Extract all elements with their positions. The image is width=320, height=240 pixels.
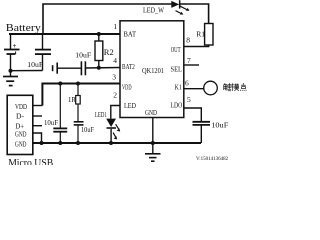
svg-text:10uF: 10uF [211, 120, 228, 129]
wire R1 to pin8 [184, 45, 209, 47]
wire C3 to pin4 BAT2 [85, 67, 120, 70]
wire D+ stub [33, 125, 42, 127]
svg-text:Battery: Battery [6, 23, 42, 34]
wire battery top rail [9, 33, 120, 35]
svg-text:LED_W: LED_W [143, 7, 164, 15]
svg-text:R1: R1 [196, 30, 205, 39]
svg-text:10uF: 10uF [75, 51, 91, 60]
svg-text:SEL: SEL [171, 65, 183, 74]
LED W emission arrows [176, 6, 190, 15]
ground chip [145, 153, 161, 155]
node 1R top [76, 82, 80, 86]
resistor R1 [205, 24, 213, 46]
node GND1 [40, 141, 44, 145]
capacitor C6 10uF [193, 121, 211, 123]
svg-text:BAT2: BAT2 [122, 62, 135, 71]
LED W [171, 0, 180, 8]
node battery bottom [9, 69, 13, 73]
svg-text:BAT: BAT [124, 30, 137, 39]
svg-text:V:15014136482: V:15014136482 [196, 157, 229, 162]
svg-text:+: + [13, 42, 17, 50]
node chip GND [151, 141, 155, 145]
svg-text:K1: K1 [175, 83, 182, 92]
char 触 [224, 83, 232, 91]
node LED1 bottom [109, 141, 113, 145]
svg-text:LED1: LED1 [95, 111, 107, 119]
svg-text:OUT: OUT [171, 45, 181, 54]
svg-text:3: 3 [112, 73, 116, 82]
capacitor C5 10uF [74, 121, 84, 123]
svg-text:7: 7 [187, 56, 191, 65]
resistor R3 1R [77, 84, 79, 96]
label 触摸点 [224, 83, 247, 91]
pin numbers [112, 22, 191, 104]
wire chip GND lead [152, 118, 154, 154]
wire pin5 LDO to C6 [184, 108, 201, 122]
wire D- stub [33, 115, 42, 117]
node R2 top [97, 32, 101, 36]
svg-text:4: 4 [113, 56, 117, 65]
svg-text:GND: GND [15, 130, 27, 139]
capacitor C1 10uF [42, 34, 44, 49]
svg-text:GND: GND [15, 140, 27, 149]
svg-text:10uF: 10uF [27, 60, 43, 69]
capacitor C3 10uF [80, 61, 82, 75]
wire VDD stub [33, 105, 43, 107]
svg-text:1R: 1R [68, 97, 76, 104]
wire pin6 K1 stub [184, 88, 204, 90]
wire pin7 SEL stub [184, 64, 199, 66]
capacitor C2 polarized [52, 65, 54, 71]
svg-text:6: 6 [185, 79, 189, 88]
svg-text:1: 1 [113, 22, 117, 31]
node R2 bottom [97, 66, 101, 70]
LED1 emission arrows [116, 124, 119, 129]
node cap C4 top [58, 82, 62, 86]
svg-text:GND: GND [145, 108, 157, 117]
char 摸 [232, 83, 239, 91]
svg-text:VDD: VDD [122, 83, 132, 92]
touch pad circle [204, 81, 218, 95]
svg-text:Micro USB: Micro USB [8, 158, 53, 165]
wire ground rail bottom [33, 142, 201, 144]
svg-text:8: 8 [186, 36, 190, 45]
svg-text:LED: LED [124, 101, 136, 110]
node C5 bottom [76, 141, 80, 145]
wire VL rail pin3 [42, 84, 120, 106]
wire C2 to C3 [57, 67, 81, 69]
svg-text:5: 5 [187, 95, 191, 104]
wire GND1 stub [33, 133, 42, 143]
svg-text:QK1201: QK1201 [142, 66, 164, 75]
svg-text:D-: D- [16, 112, 24, 121]
connector J1 Micro USB box [7, 95, 33, 154]
char 点 [240, 83, 246, 91]
battery B1 [10, 34, 12, 49]
resistor R2 [98, 34, 100, 41]
IC U1 QK1201 [120, 21, 184, 118]
svg-text:2: 2 [113, 91, 117, 100]
wire battery minus to C2 [11, 70, 43, 72]
capacitor C4 10uF [59, 84, 61, 129]
ground battery [10, 71, 12, 76]
svg-text:VDD: VDD [15, 102, 27, 111]
svg-text:LDO: LDO [171, 101, 183, 110]
wire top LED_W net [43, 4, 172, 34]
svg-text:10uF: 10uF [44, 119, 58, 127]
node C4 bottom [58, 141, 62, 145]
wire LED_W cathode to R1 [180, 4, 209, 24]
svg-text:10uF: 10uF [81, 126, 94, 134]
